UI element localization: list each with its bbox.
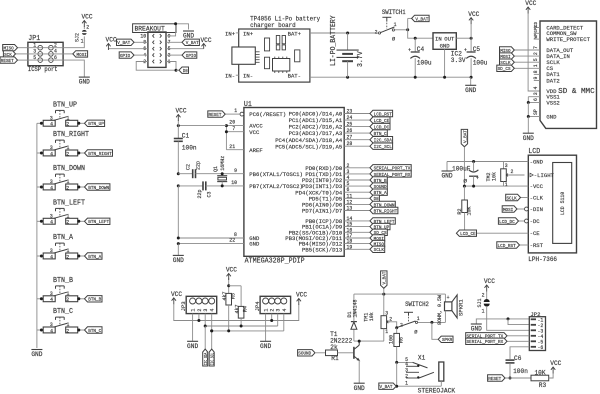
pushbutton BTN_C [43,308,77,334]
svg-text:C1: C1 [182,132,189,139]
svg-text:27: 27 [347,135,353,141]
pin WP WRITE_PROTECT [534,33,591,43]
junction [77,255,80,258]
pin DC of LCD [530,218,541,225]
svg-text:-CLK: -CLK [530,194,544,201]
net flag BTN_LEFT [370,218,395,224]
svg-text:3: 3 [50,214,53,220]
junction [40,152,43,155]
wire to JP2 pin2 [508,319,529,325]
wire LIGHT row [508,174,525,176]
SMD parts on TP4056 [265,36,300,69]
wire BTN_B right to flag [78,298,85,300]
svg-text:SWITCH1: SWITCH1 [382,9,406,16]
svg-text:VCC: VCC [226,267,237,274]
svg-text:R1: R1 [331,355,338,362]
wire to GND (U1) [177,244,179,256]
battery BATTERY1 Li-Po [330,15,365,78]
net flag SD_CS [497,65,515,71]
svg-text:BTN_C: BTN_C [88,328,101,334]
wire BTN_UP right to flag [78,122,85,124]
switch SWITCH1 [375,9,406,42]
wire BTN_UP left to rail [37,122,43,124]
svg-text:24: 24 [347,115,353,121]
IC chip on TP4056 [273,57,290,73]
wire JP3 pin2 to VCC row [198,314,200,321]
net flag GPIO right [182,52,197,58]
svg-text:-DC: -DC [530,218,541,225]
net flag BTN_B [370,177,387,183]
svg-text:4: 4 [50,254,53,260]
svg-text:11: 11 [347,193,353,199]
svg-text:Q1: Q1 [213,166,219,172]
wire JP1 pin6 to GND [63,60,84,77]
svg-text:1: 1 [67,214,70,220]
pin CD CARD_DETECT [534,22,584,32]
junction cap top [472,160,475,163]
svg-text:10k: 10k [491,172,497,181]
svg-text:IN-: IN- [243,73,253,80]
svg-text:BTN_UP: BTN_UP [53,101,77,109]
svg-text:7: 7 [533,46,539,49]
ground GND (breakout) [183,30,194,32]
resistor R6 100 [388,328,404,363]
svg-text:V_BAT: V_BAT [117,40,130,46]
svg-text:1: 1 [67,291,70,297]
net flag MOSI [370,235,385,241]
svg-text:SP: SP [533,109,539,115]
ground GND (LCD) [442,170,453,172]
svg-text:IN+: IN+ [243,30,254,37]
net flag D8 [370,195,380,201]
svg-text:BTN_LEFT: BTN_LEFT [88,219,109,225]
junction JP3 pin2 [197,319,200,322]
svg-text:LI-PO_BATTERY: LI-PO_BATTERY [330,15,338,66]
net flag MISO [3,45,18,51]
svg-text:-LIGHT: -LIGHT [534,172,555,179]
pin 20 AVCC [226,120,263,130]
net flag BTN_A [370,189,387,195]
svg-text:4: 4 [347,175,350,181]
wire JP4 pin1 to GND [265,314,267,342]
pin 1 CS [533,64,554,72]
net flag BTN_DOWN [370,201,395,207]
svg-text:100u: 100u [417,59,432,66]
svg-text:BTN_A: BTN_A [88,254,101,260]
wire CLK row [521,197,529,199]
svg-text:3: 3 [50,291,53,297]
wire JP4 pin2 to VCC [271,314,273,321]
svg-text:2: 2 [66,122,69,128]
jack pin2 contact [405,372,434,379]
svg-text:6: 6 [533,98,539,101]
pin LIGHT of LCD [530,172,554,179]
junction C6 bottom [509,377,512,380]
svg-text:+: + [464,48,467,54]
net flag I2C_SDA [370,137,393,143]
svg-text:MOSI: MOSI [503,207,513,213]
svg-text:4: 4 [50,328,53,334]
wire R1 to T1 base [338,352,354,354]
net flag RESET (bottom) [488,375,505,381]
pushbutton BTN_LEFT [43,199,85,225]
net flag BTN_C [370,130,387,136]
pin stub DAT2 [534,80,540,82]
pin 17 PB3(MOSI/OC2)/D11 [285,233,370,242]
capacitor 100uF electrolytic [452,162,479,187]
svg-text:VCC: VCC [484,278,495,285]
pin 15 PB1(OC1A)/D9 [302,222,370,231]
net flag LCD_CE [370,117,390,123]
svg-text:3: 3 [50,322,53,328]
svg-text:GPIO: GPIO [186,53,196,59]
junction V_BAT sound [382,293,385,296]
wire SDA flag drop [204,326,206,349]
junction collector [358,340,361,343]
svg-text:GND: GND [546,113,557,120]
net flag MOSI [73,51,88,57]
svg-text:charger board: charger board [250,22,296,29]
junction [40,297,43,300]
junction jack5 [395,361,398,364]
svg-text:100n: 100n [513,368,528,375]
ground GND (JP4) [260,340,271,342]
wire SDA row [205,325,278,327]
junction [40,329,43,332]
connector BREAKOUT header [133,24,176,68]
wire pin4 GPIO [134,54,148,56]
svg-text:RESET: RESET [209,112,222,118]
svg-text:PC5(ADC5/SCL)/D19,A5: PC5(ADC5/SCL)/D19,A5 [275,143,342,150]
net flag SERIAL_PORT_RX (JP2) [466,338,507,344]
junction [175,69,178,72]
pin 14 PB0(ICP)/D8 [305,216,370,225]
net flag SCLK [370,246,385,252]
pin GND of LCD [530,158,544,165]
svg-text:V_BAT: V_BAT [380,384,393,390]
net flag BTN_C [85,327,103,333]
junction C5 bottom [470,76,473,79]
svg-text:10K: 10K [534,370,545,377]
junction switch2 left [395,326,398,329]
svg-text:8: 8 [533,70,539,73]
pin 27 PC4(ADC4/SDA)/D18,A4 [275,135,370,144]
junction VSS2 [527,101,530,104]
net flag GPIO left [119,52,134,58]
svg-text:10k: 10k [369,312,375,321]
svg-text:2: 2 [389,316,392,322]
svg-text:2: 2 [66,185,69,191]
wire GND rail left [177,186,179,238]
svg-text:V_BAT: V_BAT [382,272,388,285]
wire R6 to jack pin5 [397,361,413,363]
svg-text:GND: GND [183,33,194,40]
junction [77,329,80,332]
svg-text:BTN_A: BTN_A [53,234,74,242]
svg-text:3: 3 [385,311,388,317]
svg-text:3: 3 [505,163,508,169]
jack pin5 lever [405,357,427,368]
svg-text:2: 2 [400,322,403,328]
svg-text:4k7: 4k7 [222,292,228,301]
svg-text:1: 1 [67,116,70,122]
display LCD LPH-7366 [528,148,576,263]
svg-text:4k7: 4k7 [235,305,241,314]
svg-text:7: 7 [232,126,235,132]
svg-text:3: 3 [347,169,350,175]
svg-text:2: 2 [66,151,69,157]
connector JP1 ICSP port [28,35,63,73]
net flag LCD_DC [498,218,518,224]
svg-text:VSS2: VSS2 [546,99,560,106]
wire pin9 to GND [166,24,189,36]
svg-text:U1: U1 [244,101,252,109]
USB connector on TP4056 [232,47,260,64]
net flag LCD_CE [456,230,476,236]
net flag SD_CS [370,229,387,235]
svg-text:23: 23 [347,109,353,115]
resistor R5 4k7 [222,278,236,331]
net flag V_BAT (jack) [379,383,396,389]
net flag MISO [370,240,385,246]
net flag BTN_DOWN [85,184,110,190]
svg-text:1: 1 [67,248,70,254]
net flag LCD_RST [497,242,520,248]
svg-text:VCC: VCC [468,11,479,18]
svg-text:GND: GND [260,343,271,350]
junction [40,186,43,189]
svg-text:R6: R6 [399,337,405,343]
svg-text:VCC: VCC [200,37,211,44]
net flag I2C_SCL [209,349,214,366]
svg-text:VCC: VCC [81,14,92,21]
wire JP1 row2 internal [28,53,63,55]
svg-text:2: 2 [511,169,514,175]
wire collector row [354,340,384,342]
svg-text:4: 4 [50,220,53,226]
svg-text:SJ1: SJ1 [477,299,483,308]
svg-text:2: 2 [66,220,69,226]
svg-text:SCLK: SCLK [374,247,384,253]
wire SWITCH1 to V_BAT node [395,29,408,31]
svg-text:9: 9 [234,168,237,174]
pin 2 DATA_IN [533,52,570,60]
svg-text:3: 3 [203,309,209,312]
svg-text:-CE: -CE [530,230,541,237]
svg-text:1N4148: 1N4148 [353,300,359,318]
svg-text:BAT+: BAT+ [288,30,302,37]
pin 4 VDD [533,87,557,95]
net flag V_BAT (sound) [383,288,385,294]
switch SWITCH2 [398,301,430,335]
pin 7 DATA_OUT [533,46,574,54]
wire SJ1 to JP2 pin3 [487,306,530,330]
pin 23 PC0(ADC0)/D14,A0 [289,109,370,118]
svg-text:2: 2 [197,309,203,312]
junction C4 top [414,37,417,40]
svg-text:-6: -6 [538,345,544,351]
svg-text:1: 1 [67,322,70,328]
pin 10 XTAL2 [223,180,303,190]
svg-text:16MHz: 16MHz [220,156,226,171]
pushbutton BTN_A [43,234,77,260]
svg-text:-DIN: -DIN [530,206,544,213]
wire BTN_RIGHT left to rail [37,152,43,154]
diode D1 1N4148 [347,294,359,341]
resistor R3 10K [531,370,549,389]
wire R3 to VCC [549,374,553,379]
pushbutton BTN_RIGHT [43,131,89,157]
wire DC row [519,220,525,222]
svg-text:4: 4 [282,309,288,312]
pin 9 XTAL1 [223,168,303,178]
pin 2 PD0(RXD)/D0 [305,163,370,172]
pin 6 PD4(XCK/T0)/D4 [295,187,370,196]
wire BTN_LEFT left to rail [37,220,43,222]
svg-text:R5: R5 [230,293,236,299]
net flag BTN_UP [85,120,105,126]
junction R2 bottom [463,232,466,235]
junction SPKR tap [430,321,433,324]
wire pin7 V_BAT [166,41,182,43]
trimmer TM1 10k [364,294,390,341]
wire SWITCH2 to speaker [418,321,446,323]
svg-text:I2C_SDA: I2C_SDA [205,352,209,365]
svg-text:DAT2: DAT2 [546,77,560,84]
svg-text:4: 4 [50,151,53,157]
net flag MOSI (SD) [500,53,515,59]
svg-text:AREF: AREF [249,147,263,154]
junction battery- [346,76,349,79]
junction [40,122,43,125]
svg-text:OUT: OUT [444,35,455,42]
svg-text:SD_CS: SD_CS [498,66,511,72]
svg-text:2: 2 [86,25,89,31]
junction [174,22,177,25]
svg-text:+: + [408,48,411,54]
svg-text:1: 1 [385,329,388,335]
wire MISO to DATA_OUT [514,49,540,51]
wire BTN_LEFT right to flag [78,220,85,222]
capacitor C4 100u [408,38,432,77]
svg-text:RESET: RESET [488,376,501,382]
svg-text:4: 4 [210,309,216,312]
net flag LCD_RST [370,110,393,116]
jack pin4 contact [405,362,419,368]
svg-text:1: 1 [505,182,508,188]
svg-text:I2C_SCL: I2C_SCL [212,352,216,365]
svg-text:GND: GND [31,351,42,358]
wire SCL row [212,330,284,332]
svg-text:VCC: VCC [550,360,561,367]
net flag SOUND [370,183,387,189]
wire BTN_C right to flag [78,329,85,331]
power VCC (U1) [177,120,179,125]
svg-text:2: 2 [375,30,378,36]
ground GND (ICSP) [79,76,90,78]
wire JP1 pin2 to SJ2 [63,36,84,47]
junction [77,152,80,155]
ground GND (regulator) [465,84,476,86]
svg-text:26: 26 [347,128,353,134]
wire LCD VCC row [464,185,528,187]
pin RST of LCD [530,242,544,249]
svg-text:1: 1 [405,380,408,386]
svg-text:BTN_DOWN: BTN_DOWN [53,165,85,173]
svg-text:JP3: JP3 [180,301,187,312]
label IN- pad [225,73,239,80]
wire C6 to JP2 pin6 [510,347,529,359]
svg-text:ICSP port: ICSP port [28,66,58,73]
connector JP4 [254,296,291,313]
svg-text:-VCC: -VCC [530,183,544,190]
wire JP1 row3 internal [28,59,63,61]
power VCC (SD card) [527,7,529,14]
svg-text:3: 3 [50,248,53,254]
svg-text:-GND: -GND [530,158,544,165]
wire pins 1-2 loop to D8 [136,62,176,71]
svg-text:LCD_CE: LCD_CE [460,231,476,237]
svg-text:BTN_B: BTN_B [88,297,101,303]
svg-text:1: 1 [264,309,270,312]
pin 5 SCLK [533,58,560,66]
svg-text:GND: GND [187,343,198,350]
svg-text:SJ2: SJ2 [74,33,80,42]
svg-text:GND: GND [465,87,476,94]
wire MISO to JP1 [18,47,28,49]
wire GND row to JP2 pin1 [476,319,529,324]
wire VCC to SD VDD [528,14,540,92]
pin 24 PC1(ADC1)/D15,A1 [289,115,370,124]
svg-text:4: 4 [50,185,53,191]
svg-text:R3: R3 [539,382,546,389]
pin 4 PD2(INT0)/D2 [302,175,370,184]
wire pin5 to VCC right [166,48,204,50]
wire to GND (SD) [527,117,529,134]
svg-text:3: 3 [50,116,53,122]
wire V_BAT down to VCC row [463,147,465,186]
svg-text:3.3V: 3.3V [451,57,466,64]
junction V_BAT node [406,28,409,31]
pushbutton BTN_B [43,277,77,303]
pin 16 PB2(SS/OC1B)/D10 [289,227,370,236]
wire SCK to JP1 [16,53,28,55]
pin CE of LCD [530,230,541,237]
svg-text:BTN_RIGHT: BTN_RIGHT [53,131,90,139]
junction VCC rail [177,124,180,127]
svg-text:5: 5 [347,181,350,187]
net flag V_BAT right [182,39,199,45]
svg-text:1: 1 [533,64,539,67]
svg-text:PC6(/RESET): PC6(/RESET) [249,111,286,118]
svg-text:V_BAT: V_BAT [186,40,199,46]
svg-text:1: 1 [234,108,237,114]
wire BTN_A left to rail [37,255,43,257]
svg-text:IN-: IN- [225,73,235,80]
svg-text:21: 21 [229,144,235,150]
svg-text:VCC: VCC [106,37,117,44]
wire JP1 row1 internal [28,47,63,49]
svg-text:2N2222: 2N2222 [330,338,352,345]
pin 6 VSS2 wire [528,97,560,107]
svg-text:8OHM, 0.5W: 8OHM, 0.5W [437,294,443,325]
svg-text:10: 10 [140,33,146,39]
net flag RESET (U1) [208,111,225,117]
pin SP GND wire [528,103,557,121]
svg-text:WP: WP [534,33,539,38]
svg-text:100n: 100n [182,144,197,151]
svg-text:1: 1 [67,179,70,185]
